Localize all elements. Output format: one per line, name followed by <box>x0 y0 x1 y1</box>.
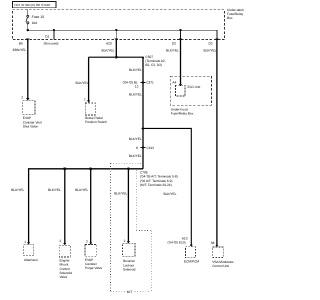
terminal at alternator pin 1 <box>27 242 30 244</box>
connector C412 <box>141 146 146 148</box>
connector C371 <box>141 81 146 83</box>
wire BRN/YEL B9 to EVAP canister vent shut valve <box>27 40 29 100</box>
svg-text:BLK/YEL: BLK/YEL <box>166 49 179 53</box>
node terminal D2 left <box>179 39 182 42</box>
terminal at EVAP canister purge valve pin 2 <box>89 242 92 244</box>
node junction at A23 drop <box>115 56 118 59</box>
wire horizontal splice bus y57 <box>89 56 143 58</box>
wire bottom distribution bus <box>29 169 143 244</box>
svg-text:BLK/YEL: BLK/YEL <box>102 49 115 53</box>
svg-text:1: 1 <box>84 98 86 102</box>
svg-text:HOT IN IGN (II) OR START: HOT IN IGN (II) OR START <box>14 3 51 7</box>
svg-text:BLK/YEL: BLK/YEL <box>129 137 142 141</box>
svg-text:ELD Unit: ELD Unit <box>188 85 201 89</box>
wire stub A23 <box>115 30 117 39</box>
svg-text:12: 12 <box>135 85 139 89</box>
node junction bus/reverse lockout <box>127 167 130 170</box>
wire BLK/YEL bus to EVAP canister purge valve <box>90 169 92 245</box>
connector C507 <box>142 57 144 59</box>
terminal at VSA modulator-control unit pin 38 <box>215 245 218 247</box>
wire internal bus of under-dash box <box>28 30 217 39</box>
svg-text:Solenoid: Solenoid <box>123 268 136 272</box>
wire center trunk from C507 corner down <box>142 57 144 169</box>
wire from box top to fuse <box>27 10 29 16</box>
node terminal A23 <box>115 39 118 42</box>
svg-text:(M/T: Terminals 20-24): (M/T: Terminals 20-24) <box>140 183 172 187</box>
brake pedal position switch (dashed box) <box>85 103 95 115</box>
svg-text:C412: C412 <box>146 146 154 150</box>
svg-text:('04-'05 E10): ('04-'05 E10) <box>168 240 186 244</box>
node junction D1 stub <box>53 29 55 31</box>
svg-text:Fuse 15: Fuse 15 <box>32 15 45 19</box>
svg-text:2: 2 <box>86 240 88 244</box>
terminal at ELD unit pin A4 <box>179 84 182 86</box>
svg-text:Valve: Valve <box>60 275 68 279</box>
svg-text:Box: Box <box>227 16 233 20</box>
label EVAP Canister Purge Valve <box>85 258 102 270</box>
terminal at engine mount control solenoid valve pin 2 <box>63 243 66 245</box>
node junction trunk/ECM branch <box>142 127 145 130</box>
wire stub D2 left <box>180 30 182 39</box>
svg-text:Alternator: Alternator <box>24 258 39 262</box>
svg-text:BLK/YEL: BLK/YEL <box>114 191 127 195</box>
terminal at ECM/PCM pin A10 <box>190 245 193 247</box>
label C785 terminal list <box>140 170 178 187</box>
svg-text:A23: A23 <box>106 41 112 45</box>
label VSA Modulator-Control Unit <box>212 260 234 268</box>
svg-text:Fuse/Relay Box: Fuse/Relay Box <box>171 111 194 115</box>
terminal at EVAP vent shut valve pin 2 <box>26 98 29 100</box>
wire BLK/YEL bus to reverse lockout solenoid <box>127 169 129 243</box>
svg-text:B9: B9 <box>19 41 23 45</box>
svg-text:38: 38 <box>211 241 215 245</box>
label C507 (Terminals A2, B2, C2, D2) <box>145 55 165 67</box>
node junction bus/fuse <box>27 29 29 31</box>
svg-text:2: 2 <box>60 239 62 243</box>
svg-text:BLK/YEL: BLK/YEL <box>48 188 61 192</box>
svg-text:ECM/PCM: ECM/PCM <box>184 260 199 264</box>
node terminal B9 <box>26 39 29 42</box>
VSA modulator-control unit (dashed box) <box>213 247 224 258</box>
svg-text:BLK/YEL: BLK/YEL <box>129 92 142 96</box>
svg-text:2: 2 <box>21 96 23 100</box>
alternator (dashed box) <box>24 245 34 256</box>
pin A10 ('04-'05 E10) ECM/PCM <box>168 237 188 245</box>
ECM/PCM (dashed box) <box>185 247 195 258</box>
svg-text:A4: A4 <box>172 80 176 84</box>
svg-text:B2, C2, D2): B2, C2, D2) <box>145 63 162 67</box>
node terminal D2 right <box>215 39 218 42</box>
svg-text:D2: D2 <box>172 41 176 45</box>
svg-text:1: 1 <box>24 240 26 244</box>
wire BLK/YEL A23 down <box>115 40 117 58</box>
svg-text:Position Switch: Position Switch <box>85 120 107 124</box>
under-dash fuse/relay box (dashed enclosure) <box>13 10 225 40</box>
ELD unit (dashed box) <box>175 85 185 96</box>
svg-text:BLK/YEL: BLK/YEL <box>75 188 88 192</box>
svg-text:(Not used): (Not used) <box>44 42 59 46</box>
terminal at brake pedal position switch pin 1 <box>87 101 90 103</box>
pin label ('04-'05 B): 12 <box>123 81 139 89</box>
svg-text:D2: D2 <box>209 41 213 45</box>
label Reverse Lockout Solenoid <box>123 259 136 271</box>
svg-text:C371: C371 <box>146 81 154 85</box>
node HOT IN IGN (II) OR START label box <box>13 2 57 8</box>
wire fuse to internal bus <box>27 24 29 31</box>
EVAP canister purge valve (dashed box) <box>85 245 97 257</box>
svg-text:BRN/YEL: BRN/YEL <box>13 48 27 52</box>
wire down to brake pedal position switch <box>88 57 90 102</box>
node junction bus/engine mount <box>63 167 66 170</box>
svg-text:BLK/YEL: BLK/YEL <box>204 49 217 53</box>
svg-text:BLK/YEL: BLK/YEL <box>76 81 89 85</box>
svg-text:BLK/YEL: BLK/YEL <box>164 192 177 196</box>
svg-text:2: 2 <box>124 239 126 243</box>
wire BLK/YEL D2 left to ELD unit <box>180 40 182 86</box>
wire BLK/YEL D2 right to VSA modulator-control unit <box>216 40 218 245</box>
label Engine Mount Control Solenoid Valve <box>60 258 73 279</box>
label Brake Pedal Position Switch <box>85 116 107 124</box>
node junction D2 stub <box>179 29 181 31</box>
svg-text:BLK/YEL: BLK/YEL <box>129 68 142 72</box>
label EVAP Canister Vent Shut Valve <box>23 116 42 128</box>
wire BLK/YEL bus to engine mount control solenoid valve <box>64 169 66 245</box>
svg-text:BLK/YEL: BLK/YEL <box>129 154 142 158</box>
wire stub D1 (not used) <box>53 30 55 39</box>
svg-text:Purge Valve: Purge Valve <box>85 266 102 270</box>
under-hood fuse/relay box (dashed enclosure) <box>170 76 211 105</box>
node junction bus/EVAP purge <box>89 167 92 170</box>
M/T dotted enclosure <box>111 163 152 291</box>
terminal at reverse lockout solenoid pin 2 <box>127 241 130 243</box>
label Under-hood Fuse/Relay Box <box>171 107 194 115</box>
svg-text:M/T: M/T <box>127 290 133 294</box>
fuse Fuse 15 (10A) <box>26 15 29 24</box>
engine mount control solenoid valve (dashed box) <box>59 245 70 257</box>
under-dash fuse/relay box name label <box>227 8 244 20</box>
svg-text:BLK/YEL: BLK/YEL <box>11 188 24 192</box>
svg-text:10A: 10A <box>32 21 39 25</box>
EVAP canister vent shut valve (dashed box) <box>23 101 35 114</box>
wire branch to ECM/PCM <box>143 128 191 244</box>
svg-text:D1: D1 <box>45 34 49 38</box>
node junction A23 stub <box>115 29 117 31</box>
svg-text:Shut Valve: Shut Valve <box>23 125 38 129</box>
reverse lockout solenoid (dashed box) <box>123 243 136 256</box>
svg-text:Control Unit: Control Unit <box>212 264 229 268</box>
